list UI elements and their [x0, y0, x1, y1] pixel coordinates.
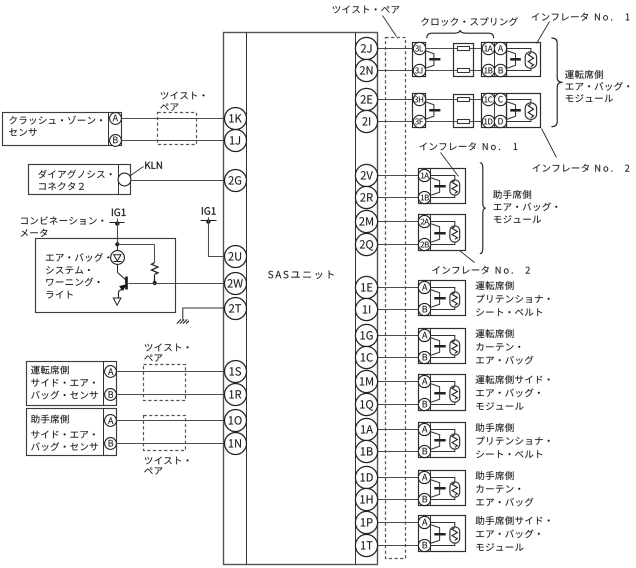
inflator No.1 label (middle): [419, 142, 475, 150]
passenger side airbag sensor label: [31, 415, 69, 424]
wire base to 2W: [129, 283, 224, 285]
passenger side airbag module module box: [419, 516, 466, 552]
KLN label: [131, 167, 144, 176]
ground symbol: [177, 319, 189, 323]
terminal 1R: [225, 384, 247, 406]
shorting bar (connector 3H): [425, 102, 434, 120]
wire 1Q to module: [378, 404, 419, 406]
terminal 1B: [355, 440, 377, 462]
passenger airbag inflator2 module box: [419, 215, 466, 251]
twisted pair dashed box (passenger sensor): [144, 416, 186, 451]
terminal 1E: [355, 276, 377, 298]
inflator No.2 label (right): [542, 129, 557, 158]
crash zone sensor label: [9, 116, 102, 125]
driver airbag inflator1 module box: [507, 43, 541, 77]
twisted pair dashed box (driver sensor): [144, 365, 186, 401]
passenger curtain airbag module box: [419, 471, 466, 506]
pin A (passenger pretensioner seat belt): [418, 423, 430, 435]
driver side airbag module module box: [419, 375, 466, 411]
wire 1P to module: [378, 522, 419, 524]
pin B (driver curtain airbag): [418, 351, 430, 363]
wire 3J to connector: [378, 70, 413, 72]
driver airbag module label: [565, 70, 603, 79]
pin B (passenger pretensioner seat belt): [418, 445, 430, 457]
passenger pretensioner seat belt label: [476, 423, 514, 432]
pin D: [494, 115, 506, 127]
terminal 2T: [225, 298, 247, 320]
pin B: [494, 64, 506, 76]
terminal 2U: [225, 246, 247, 268]
connector 1C/1D: [482, 94, 507, 128]
pin C: [494, 93, 506, 105]
driver pretensioner seat belt label: [476, 281, 514, 290]
pin B (passenger curtain airbag): [418, 493, 430, 505]
inflator squib (passenger airbag inflator2): [431, 222, 455, 226]
pin A (passenger curtain airbag): [418, 471, 430, 483]
pin 2B (passenger airbag inflator2): [418, 238, 430, 250]
pin 3J: [413, 64, 425, 76]
inflator squib (driver airbag inflator1): [507, 49, 531, 52]
wire 1E to module: [378, 287, 419, 289]
pin B (passenger side airbag module): [418, 539, 430, 551]
terminal 2R: [355, 186, 377, 208]
passenger curtain airbag label: [476, 471, 514, 480]
wire to clock spring (bottom): [426, 70, 482, 72]
driver airbag inflator2 module box: [507, 94, 541, 128]
sensor pin B (passenger): [105, 438, 117, 450]
twisted pair dashed box (crash sensor): [158, 113, 197, 145]
crash zone sensor box: [3, 113, 122, 146]
wire 1H to module: [378, 499, 419, 501]
driver side airbag sensor label: [31, 366, 69, 375]
clock spring label: [421, 17, 517, 26]
wire 3F to connector: [378, 121, 413, 123]
clock spring terminal (top): [458, 98, 470, 102]
pin A: [494, 42, 506, 54]
passenger side airbag sensor box: [27, 409, 117, 456]
inflator squib (passenger curtain airbag): [431, 478, 455, 482]
wire 2T to ground: [183, 308, 224, 320]
pin B (driver side airbag module): [418, 398, 430, 410]
driver curtain airbag module box: [419, 329, 466, 364]
shorting bar (driver curtain airbag): [431, 338, 440, 356]
wire 1A to module: [378, 429, 419, 431]
inflator squib (passenger side airbag module): [431, 523, 455, 527]
terminal 2W: [225, 273, 247, 295]
twisted pair label (crash sensor): [161, 92, 205, 100]
inflator squib (driver pretensioner seat belt): [431, 288, 455, 292]
terminal 1K: [225, 108, 247, 130]
twisted pair label (driver sensor): [145, 343, 189, 351]
SAS unit label: [268, 270, 334, 278]
terminal 1Q: [355, 393, 377, 415]
wire B to 1J: [122, 140, 224, 142]
terminal 2J: [355, 37, 377, 59]
warning light label: [46, 253, 109, 262]
twisted-pair dashed run (right): [386, 38, 406, 559]
terminal 2V: [355, 164, 377, 186]
wire 3L to connector: [378, 48, 413, 50]
warning light box: [36, 239, 176, 313]
wire 1I to module: [378, 309, 419, 311]
clock spring unit: [454, 95, 474, 128]
pin A (driver curtain airbag): [418, 329, 430, 341]
connector 1A/1B: [482, 43, 507, 77]
terminal 2G: [225, 170, 247, 192]
terminal 1I: [355, 298, 377, 320]
twisted pair label (passenger sensor): [145, 457, 189, 465]
shorting bar (passenger side airbag module): [431, 525, 440, 544]
clock spring terminal (bottom): [458, 120, 470, 124]
inflator squib (driver side airbag module): [431, 382, 455, 386]
wire 3H to connector: [378, 99, 413, 101]
diagnosis connector label: [38, 170, 111, 179]
wire to clock spring (top): [426, 99, 482, 101]
connector 3L/3J: [413, 43, 426, 77]
wire IG1 to 2U: [209, 217, 224, 256]
wire resistor to node: [154, 275, 156, 284]
pin 3H: [413, 93, 425, 105]
wire 2V to module: [378, 175, 419, 177]
wire 1T to module: [378, 545, 419, 547]
crash zone sensor pin A: [110, 113, 122, 125]
shorting bar (passenger airbag inflator1): [431, 178, 440, 196]
wire LED to transistor: [117, 265, 119, 273]
resistor R1: [151, 263, 158, 275]
terminal 1G: [355, 324, 377, 346]
terminal 1A: [355, 418, 377, 440]
pin A (driver side airbag module): [418, 375, 430, 387]
pin B (driver pretensioner seat belt): [418, 303, 430, 315]
wire to resistor: [118, 244, 155, 246]
wire B to 1R: [117, 394, 224, 396]
sensor pin B (driver): [105, 389, 117, 401]
pin 1B: [482, 64, 494, 76]
node IG1 left: [110, 222, 125, 224]
node base: [153, 281, 157, 285]
terminal 1H: [355, 488, 377, 510]
node branch: [115, 242, 119, 246]
shorting bar (driver airbag inflator2 module): [507, 102, 516, 120]
wire B to 1N: [117, 443, 224, 445]
shorting bar (passenger pretensioner seat belt): [431, 432, 440, 450]
diagnosis connector pin: [118, 173, 131, 186]
wire LED anode: [117, 247, 119, 251]
transistor Q1: [125, 277, 128, 290]
inflator squib (driver airbag inflator2): [507, 100, 531, 103]
wire 1D to module: [378, 477, 419, 479]
wire 1B to module: [378, 451, 419, 453]
sensor pin A (passenger): [105, 415, 117, 427]
IG1 label (right): [202, 207, 216, 215]
pin 1A: [482, 42, 494, 54]
wire 1M to module: [378, 381, 419, 383]
terminal 1D: [355, 466, 377, 488]
wire 2R to module: [378, 197, 419, 199]
diagnosis connector box: [29, 165, 131, 195]
wire KLN to 2G: [132, 180, 224, 182]
pin A (passenger side airbag module): [418, 516, 430, 528]
terminal 2I: [355, 110, 377, 132]
wire 1C to module: [378, 357, 419, 359]
pin 3L: [413, 42, 425, 54]
terminal 1C: [355, 346, 377, 368]
driver airbag module brace: [551, 38, 562, 127]
pin 2A (passenger airbag inflator2): [418, 215, 430, 227]
passenger airbag module label: [493, 190, 531, 199]
driver side airbag sensor box: [27, 362, 117, 406]
pin 1A (passenger airbag inflator1): [418, 169, 430, 181]
wire A to 1K: [122, 118, 224, 120]
driver pretensioner seat belt module box: [419, 281, 466, 316]
pin 1B (passenger airbag inflator1): [418, 191, 430, 203]
terminal 1S: [225, 361, 247, 383]
wire to clock spring (top): [426, 48, 482, 50]
wire IG1 down: [117, 219, 119, 245]
pin A (driver pretensioner seat belt): [418, 281, 430, 293]
connector 3H/3F: [413, 94, 426, 128]
passenger side airbag module label: [476, 516, 550, 525]
twisted-pair label (top): [333, 6, 400, 14]
terminal 2Q: [355, 233, 377, 255]
down arrow (to ground): [113, 298, 121, 305]
SAS unit box: [224, 33, 378, 565]
pin 1C: [482, 93, 494, 105]
inflator squib (passenger airbag inflator1): [431, 176, 455, 180]
passenger airbag inflator1 module box: [419, 169, 466, 204]
clock spring brace: [427, 30, 494, 38]
clock spring terminal (bottom): [458, 69, 470, 73]
clock spring unit: [454, 44, 474, 77]
inflator squib (driver curtain airbag): [431, 336, 455, 340]
combination meter label: [21, 216, 103, 224]
shorting bar (driver side airbag module): [431, 384, 440, 403]
terminal 2N: [355, 59, 377, 81]
IG1 label (left): [112, 209, 126, 217]
node IG1 right: [201, 220, 217, 222]
passenger airbag module brace: [480, 163, 486, 254]
terminal 1M: [355, 370, 377, 392]
pin 1D: [482, 115, 494, 127]
shorting bar (driver airbag inflator1 module): [507, 51, 516, 69]
wire 1G to module: [378, 335, 419, 337]
pin 3F: [413, 115, 425, 127]
shorting bar (passenger airbag inflator2): [431, 224, 440, 243]
crash zone sensor pin B: [110, 135, 122, 147]
inflator No.2 label (bottom): [460, 251, 475, 263]
shorting bar (connector 3L): [425, 51, 434, 69]
terminal 2E: [355, 88, 377, 110]
driver curtain airbag label: [476, 329, 514, 338]
shorting bar (driver pretensioner seat belt): [431, 290, 440, 308]
terminal 1T: [355, 534, 377, 556]
LED D1: [111, 251, 125, 265]
wire A to 1O: [117, 420, 224, 422]
wire A to 1S: [117, 371, 224, 373]
terminal 1J: [225, 130, 247, 152]
terminal 1O: [225, 410, 247, 432]
inflator No.1 label (top): [532, 13, 588, 21]
sensor pin A (driver): [105, 366, 117, 378]
wire to clock spring (bottom): [426, 121, 482, 123]
driver side airbag module label: [476, 375, 550, 384]
terminal 2M: [355, 210, 377, 232]
clock spring terminal (top): [458, 47, 470, 51]
shorting bar (passenger curtain airbag): [431, 480, 440, 498]
wire 2M to module: [378, 221, 419, 223]
terminal 1N: [225, 433, 247, 455]
terminal 1P: [355, 511, 377, 533]
wire 2Q to module: [378, 244, 419, 246]
inflator squib (passenger pretensioner seat belt): [431, 430, 455, 434]
passenger pretensioner seat belt module box: [419, 423, 466, 458]
